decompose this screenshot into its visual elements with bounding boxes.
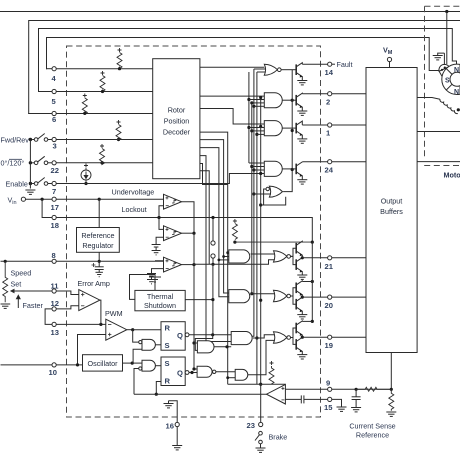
- svg-text:20: 20: [325, 301, 333, 310]
- switch Fwd/Rev: [29, 134, 153, 142]
- gate AND4 bottom drive 19: [189, 332, 275, 345]
- motor rotor: [442, 64, 460, 94]
- wire PWM to latch1 R: [133, 329, 161, 331]
- svg-text:PWM: PWM: [105, 309, 123, 318]
- pin 8 row: [1, 259, 164, 263]
- wire comp2 plus from VCC sense: [159, 218, 164, 230]
- wire oscillator output node: [123, 362, 133, 364]
- gate AND set2: [132, 360, 161, 394]
- wire switch common bus: [29, 140, 31, 189]
- pin 4 terminal: [52, 67, 56, 71]
- wire AND20 out to NOR20: [251, 293, 275, 295]
- transistor totem top 21: [291, 241, 314, 258]
- svg-text:S: S: [165, 341, 170, 350]
- svg-text:Brake: Brake: [269, 433, 288, 442]
- svg-text:Current Sense: Current Sense: [349, 422, 395, 431]
- wire sensor line 4: [47, 38, 441, 71]
- wire sensor line 1 (top): [1, 11, 460, 13]
- pin 13 terminal: [52, 322, 56, 326]
- wire decoder out 5 staircase: [200, 140, 229, 293]
- potentiometer speed set: [3, 261, 52, 302]
- svg-text:Oscillator: Oscillator: [88, 359, 119, 368]
- connector circles mid bus: [185, 216, 275, 335]
- wire phase output A: [417, 98, 460, 162]
- gate OR aux C: [226, 340, 285, 384]
- resistor pull-up sensor A: [117, 48, 122, 70]
- ground pin 15: [337, 407, 347, 411]
- Faster arrow: [17, 295, 21, 308]
- wire bus vertical 4: [256, 72, 258, 384]
- wire Vin to reference regulator: [98, 199, 100, 227]
- op-amp current sense comparator: [267, 384, 328, 404]
- battery reference comp3: [147, 274, 156, 284]
- wire AND19 out to NOR19: [253, 335, 275, 338]
- wire PWM output: [127, 329, 133, 331]
- resistor pull-up sensor C: [82, 94, 87, 116]
- wire decoder out 1 to fault gate: [200, 67, 264, 384]
- Rotor Position Decoder block: [153, 59, 200, 179]
- svg-text:14: 14: [325, 68, 334, 77]
- wire current sense row to latch2 R: [155, 382, 161, 396]
- svg-text:R: R: [165, 377, 171, 386]
- wire osc node to AND set2 top input: [132, 362, 142, 364]
- RS latch 1: [161, 322, 189, 351]
- wire Vin to pin 18: [42, 199, 52, 217]
- wire bus vertical 1: [242, 69, 263, 422]
- svg-text:21: 21: [325, 262, 334, 271]
- svg-text:N: N: [454, 89, 459, 96]
- ground fault transistor: [297, 80, 307, 82]
- wire pin12-pin13 feedback jumper: [45, 309, 52, 325]
- pin 24 row: [302, 160, 366, 164]
- svg-text:7: 7: [52, 187, 56, 196]
- pin 6 terminal: [52, 111, 56, 115]
- wire current sense comparator output row: [134, 393, 267, 395]
- Reference Regulator block: [77, 199, 120, 266]
- svg-text:Q: Q: [177, 369, 183, 378]
- transistor top drive C: [282, 162, 307, 184]
- wire comp1 output: [182, 202, 195, 233]
- svg-text:8: 8: [52, 251, 56, 260]
- resistor current sense series: [356, 387, 391, 391]
- capacitor on reference output: [92, 263, 104, 277]
- op-amp PWM comparator: [78, 319, 135, 365]
- gate NOR bottom drive 21: [274, 251, 291, 262]
- wire Vin row into IC: [56, 198, 163, 200]
- svg-text:24: 24: [325, 166, 334, 175]
- capacitor current sense filter: [351, 389, 361, 412]
- svg-text:Buffers: Buffers: [380, 207, 403, 216]
- op-amp comparator 3: [152, 257, 196, 273]
- svg-text:9: 9: [326, 379, 330, 388]
- pot wiper arrow: [11, 289, 17, 292]
- svg-text:Reference: Reference: [81, 231, 114, 240]
- ground current sense shunt: [386, 412, 396, 416]
- wire VC rail vertical: [311, 242, 313, 321]
- wire decoder out 6 staircase: [200, 148, 229, 297]
- transistor totem top 20: [291, 280, 314, 297]
- wire phase output C: [417, 161, 460, 163]
- transistor top drive B: [282, 121, 307, 143]
- gate NOR bottom drive 20: [274, 290, 291, 301]
- wire phase output B: [417, 131, 460, 133]
- resistor pull-up 60/120: [100, 144, 105, 165]
- svg-text:Undervoltage: Undervoltage: [112, 188, 155, 197]
- svg-text:11: 11: [51, 282, 60, 291]
- ground below potentiometer: [1, 304, 11, 308]
- wire decoder out 4 staircase: [200, 132, 228, 384]
- wire pin 18 row (VC rail): [56, 218, 312, 243]
- wire pin 4 into IC: [56, 68, 153, 70]
- ground hall sensor: [433, 53, 445, 60]
- Oscillator block: [83, 355, 123, 371]
- svg-text:Decoder: Decoder: [163, 128, 191, 137]
- wire decoder out 3 to gate B: [200, 109, 264, 125]
- wire comp3 minus to reference: [152, 269, 164, 274]
- wire comp3 output: [182, 264, 195, 266]
- wire gate aux A out: [214, 346, 231, 348]
- svg-text:Speed: Speed: [11, 269, 32, 278]
- svg-text:Q: Q: [177, 331, 183, 340]
- svg-text:S: S: [165, 359, 170, 368]
- transistor totem bottom 21: [291, 256, 308, 279]
- wire PWM node to AND set1 bubble input: [133, 330, 139, 342]
- pin 2 row: [302, 92, 366, 96]
- gate NOR fault: [254, 64, 281, 75]
- wire pin 6 into IC: [56, 113, 153, 115]
- wire AND set2 to latch2 S: [156, 365, 162, 367]
- svg-text:Faster: Faster: [23, 301, 44, 310]
- svg-text:Rotor: Rotor: [168, 106, 186, 115]
- gate AND top drive C: [249, 161, 282, 176]
- resistor pull-up Fwd/Rev: [116, 120, 121, 141]
- pin 20 row: [302, 295, 366, 299]
- switch Enable: [29, 174, 265, 186]
- wire row to gate aux C lower input: [228, 377, 236, 379]
- wire pin 5 stub: [39, 91, 52, 93]
- op-amp error amp: [79, 290, 101, 325]
- svg-text:N: N: [454, 67, 459, 74]
- svg-text:6: 6: [52, 115, 56, 124]
- Thermal Shutdown block: [135, 284, 185, 311]
- current source on enable line: [81, 164, 91, 186]
- wire latch2 Q to NAND aux B: [189, 372, 197, 374]
- gate NOR bottom drive 19: [274, 332, 291, 343]
- wire enable gate input 2: [254, 193, 271, 195]
- wire latch1 Q to AND19: [189, 334, 231, 336]
- pin 17 terminal: [52, 197, 56, 201]
- VM terminal: [387, 57, 391, 67]
- pin 9 terminal: [328, 387, 393, 391]
- svg-text:Enable: Enable: [6, 180, 28, 189]
- svg-text:19: 19: [325, 341, 333, 350]
- svg-text:16: 16: [166, 422, 174, 431]
- wire output buffers to current sense: [390, 353, 392, 390]
- transistor top drive A: [282, 93, 307, 115]
- wire sensor line 2: [29, 21, 460, 114]
- wire comp1 minus to VCC sense: [159, 206, 164, 218]
- wire hall sensor leads from top: [444, 12, 456, 66]
- pin 12 terminal: [52, 307, 56, 311]
- svg-text:15: 15: [324, 403, 333, 412]
- hall sensor cluster: [439, 64, 452, 77]
- pin 11 terminal: [45, 289, 106, 327]
- svg-text:Error Amp: Error Amp: [78, 279, 110, 288]
- wire AND set1 to latch1 S: [156, 344, 162, 346]
- svg-text:Output: Output: [381, 197, 403, 206]
- gate AND aux A: [194, 335, 231, 353]
- svg-text:12: 12: [51, 299, 59, 308]
- svg-text:Set: Set: [11, 280, 22, 289]
- svg-text:10: 10: [49, 368, 57, 377]
- svg-text:Fault: Fault: [337, 60, 353, 69]
- resistor pull-up fault bus: [232, 219, 312, 244]
- wire bus vertical 2: [251, 103, 253, 294]
- wire PWM + input from oscillator node: [78, 335, 106, 365]
- op-amp undervoltage comparator 1: [157, 194, 194, 233]
- wire sensor line 3: [39, 29, 453, 92]
- switch brake: [259, 431, 263, 435]
- Vin terminal: [21, 197, 312, 242]
- gate AND top drive B: [249, 121, 282, 136]
- wire osc node to AND set1 lower input: [132, 349, 142, 363]
- svg-text:Position: Position: [164, 117, 190, 126]
- svg-text:Thermal: Thermal: [147, 292, 174, 301]
- Output Buffers block: [366, 68, 417, 353]
- svg-text:Fwd/Rev: Fwd/Rev: [1, 136, 30, 145]
- svg-text:Regulator: Regulator: [82, 241, 114, 250]
- wire gate aux C out to NOR19: [248, 340, 275, 374]
- svg-text:Motor: Motor: [444, 171, 460, 180]
- switch 60/120 select: [29, 156, 153, 165]
- wire pin 11 to error amp +: [56, 291, 79, 295]
- svg-text:3: 3: [53, 142, 57, 151]
- svg-text:S: S: [445, 78, 450, 85]
- pin 14 fault row: [302, 62, 335, 66]
- wire row 263.8: [194, 260, 275, 265]
- pin 5 terminal: [52, 89, 56, 93]
- wire fault bus inputs: [254, 68, 266, 70]
- wire comp bus to NAND aux B: [194, 368, 197, 370]
- svg-text:R: R: [165, 324, 171, 333]
- transistor totem bottom 20: [291, 296, 308, 320]
- svg-text:Reference: Reference: [356, 431, 389, 440]
- wire pin 4 stub: [47, 68, 52, 70]
- wire comp bus to gate aux A: [194, 342, 197, 344]
- svg-text:2: 2: [326, 98, 330, 107]
- resistor current sense shunt: [389, 389, 394, 411]
- pin 18 terminal: [52, 215, 56, 219]
- wire decoder out 8 staircase: [200, 164, 228, 185]
- wire feedback row to AND set2 bubble input: [134, 369, 139, 395]
- gate AND top drive A: [249, 93, 282, 108]
- gate AND4 bottom drive 20: [229, 290, 275, 303]
- wire comp3 plus from reference row: [156, 260, 164, 263]
- wire brake bus vertical: [260, 98, 262, 423]
- wire error amp output to pin13 node: [100, 300, 101, 324]
- wire enable gate lower tap: [261, 197, 286, 205]
- transistor totem bottom 19: [291, 336, 308, 359]
- wire enable gate output up: [283, 70, 292, 192]
- wire latch1 to gate aux A lower: [195, 335, 212, 351]
- wire pin 5 into IC: [56, 91, 153, 93]
- thermal sensor symbol: [130, 275, 162, 300]
- gate AND set1: [132, 330, 161, 363]
- wire reference regulator output: [98, 252, 100, 266]
- wire comparator - input w/ capacitor to pin 15: [285, 398, 301, 400]
- wire thermal sensor to box: [130, 275, 150, 300]
- op-amp lockout comparator 2: [156, 218, 195, 245]
- gate NOR enable: [254, 70, 294, 205]
- pin 15 terminal: [328, 397, 342, 406]
- pin 23 brake terminal: [255, 422, 266, 452]
- wire bus vertical 3: [242, 69, 254, 336]
- transistor totem top 19: [291, 320, 314, 338]
- svg-text:Shutdown: Shutdown: [144, 301, 176, 310]
- motor dashed enclosure: [424, 6, 460, 165]
- pin 16 ground leg: [164, 401, 183, 450]
- wire AND21 out to NOR21: [251, 253, 275, 255]
- gate NAND aux B: [189, 366, 235, 377]
- wire pull-up row to VC rail: [235, 241, 312, 243]
- svg-text:23: 23: [247, 421, 255, 430]
- pin 1 row: [302, 123, 366, 127]
- battery reference comp2: [152, 245, 161, 255]
- resistor pull-up sensor B: [100, 71, 105, 93]
- pin 19 row: [302, 335, 366, 339]
- wire pin 13 row: [56, 323, 106, 325]
- gate AND4 bottom drive 21: [229, 250, 275, 263]
- svg-text:22: 22: [51, 166, 59, 175]
- wire pin 6 stub: [29, 113, 52, 115]
- pin 21 row: [302, 256, 366, 260]
- resistor current comparator pull-up: [269, 361, 274, 384]
- wire comparator bus down to gates: [192, 233, 195, 369]
- wire pin 12 to error amp -: [56, 306, 79, 309]
- motor winding: [440, 99, 460, 113]
- svg-text:Lockout: Lockout: [122, 205, 147, 214]
- wire comp2 minus to reference: [156, 237, 163, 244]
- svg-text:0°/120°: 0°/120°: [1, 159, 25, 168]
- wire fault sense row: [228, 383, 286, 385]
- wire decoder out 7 staircase: [200, 156, 231, 342]
- ground below switches: [25, 190, 35, 194]
- wire comparator + input to pin 9: [285, 388, 327, 390]
- pin 10 row: [1, 362, 134, 368]
- wire thermal shutdown output bus: [212, 264, 214, 335]
- svg-text:13: 13: [51, 328, 59, 337]
- transistor fault: [281, 63, 307, 85]
- node sensor line 1 to hall sensors: [445, 10, 448, 13]
- wire NAND aux B out to gate aux C: [216, 371, 235, 373]
- RS latch 2: [161, 357, 189, 386]
- wire decoder out 2 to gate A: [200, 95, 264, 97]
- IC dashed boundary: [67, 46, 321, 417]
- svg-text:18: 18: [51, 221, 59, 230]
- svg-text:17: 17: [51, 203, 59, 212]
- wire comp2 output: [182, 232, 195, 234]
